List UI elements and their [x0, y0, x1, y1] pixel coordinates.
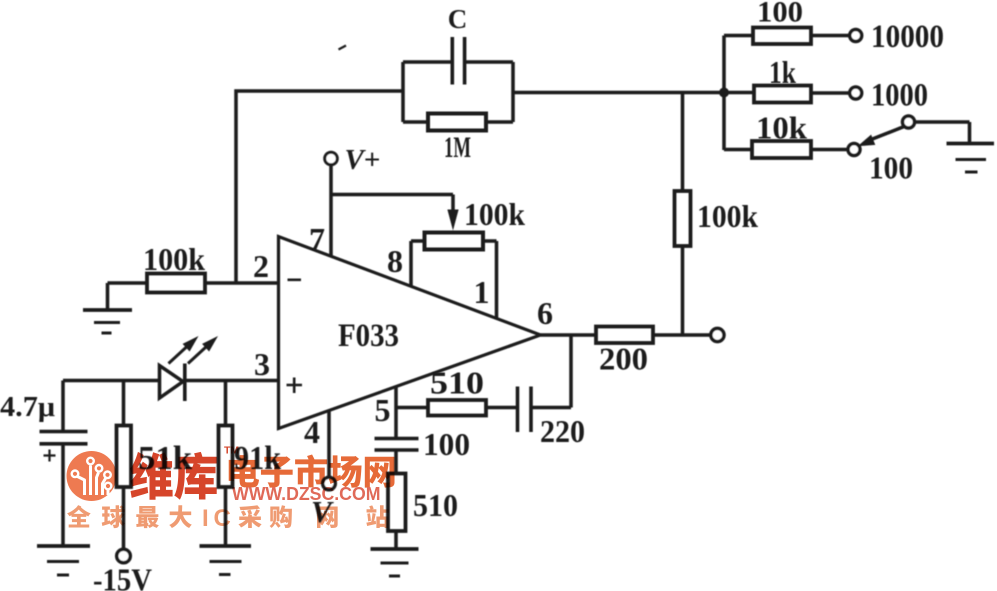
svg-text:100k: 100k — [143, 241, 205, 277]
svg-text:WWW.DZSC.COM: WWW.DZSC.COM — [232, 484, 381, 504]
svg-text:C: C — [448, 4, 468, 34]
svg-text:V+: V+ — [345, 145, 381, 176]
svg-text:100k: 100k — [464, 196, 525, 232]
svg-text:8: 8 — [387, 243, 403, 279]
svg-text:5: 5 — [375, 392, 391, 428]
svg-text:F033: F033 — [338, 318, 399, 354]
svg-text:3: 3 — [254, 346, 270, 382]
svg-text:I: I — [202, 505, 209, 532]
svg-text:220: 220 — [540, 413, 585, 449]
svg-text:4.7μ: 4.7μ — [0, 392, 55, 423]
svg-text:C: C — [214, 505, 231, 532]
svg-text:1000: 1000 — [871, 78, 928, 114]
svg-text:510: 510 — [413, 487, 458, 523]
svg-text:1M: 1M — [444, 131, 471, 164]
svg-text:7: 7 — [309, 221, 325, 257]
svg-text:100: 100 — [757, 0, 803, 29]
svg-text:10k: 10k — [756, 110, 807, 146]
svg-text:2: 2 — [253, 248, 269, 284]
svg-text:100: 100 — [423, 426, 470, 462]
svg-text:100k: 100k — [697, 198, 758, 234]
svg-text:1: 1 — [474, 274, 490, 310]
svg-text:200: 200 — [599, 341, 648, 377]
svg-text:TM: TM — [224, 445, 239, 457]
svg-text:510: 510 — [430, 365, 484, 401]
svg-text:100: 100 — [869, 150, 913, 186]
svg-text:1k: 1k — [769, 54, 796, 90]
svg-text:6: 6 — [537, 295, 553, 331]
svg-text:4: 4 — [304, 414, 320, 450]
svg-text:10000: 10000 — [871, 19, 944, 55]
svg-text:-15V: -15V — [93, 562, 152, 591]
